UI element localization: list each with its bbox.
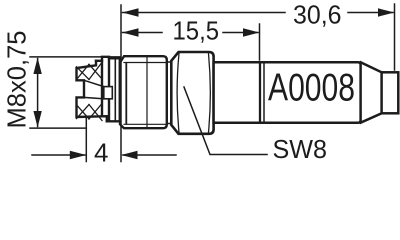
hex chamfer arc left xyxy=(177,54,179,133)
hex chamfer arc right xyxy=(209,54,211,133)
arrow M8 up xyxy=(33,58,41,74)
extension line x=86.3 for 4 xyxy=(85,119,87,162)
thread root lines xyxy=(124,62,166,64)
arrow M8 down xyxy=(33,111,41,127)
thread section M8 xyxy=(120,56,167,128)
extension line left vertical x=121 xyxy=(120,5,122,162)
dim line 30,6 xyxy=(123,12,394,14)
svg-text:A0008: A0008 xyxy=(268,67,355,110)
M8 bottom extension line xyxy=(30,127,86,129)
M8 dim vertical line xyxy=(37,59,39,127)
svg-text:4: 4 xyxy=(94,137,108,165)
body groove double line xyxy=(259,63,261,122)
crosshatch upper band xyxy=(77,62,103,79)
arrow 15,5 left xyxy=(122,28,139,36)
arrow 30,6 left xyxy=(122,8,139,16)
crosshatch lower band xyxy=(77,104,103,121)
knurled cone outline with entry notch xyxy=(77,61,107,122)
dim line 15,5 xyxy=(123,32,259,34)
M8 top extension line xyxy=(30,56,120,58)
arrow 4 left (pointing right) xyxy=(70,151,87,159)
body (A0008) xyxy=(214,62,361,122)
svg-text:SW8: SW8 xyxy=(273,134,328,164)
dim line 4 right part xyxy=(123,154,176,156)
arrow 4 right (pointing left) xyxy=(121,151,138,159)
svg-text:15,5: 15,5 xyxy=(173,16,220,46)
arrow 15,5 right xyxy=(243,28,260,36)
end cylinder tip xyxy=(382,72,399,113)
extension line x=394.5 for 30,6 xyxy=(394,4,396,70)
taper cone to tip xyxy=(361,62,382,122)
cavity pocket xyxy=(104,87,113,99)
svg-text:M8x0,75: M8x0,75 xyxy=(2,31,32,129)
hex nut SW8 xyxy=(171,52,213,134)
thread runout verticals xyxy=(125,64,127,124)
collar rings xyxy=(107,58,120,121)
dim line 4 left part xyxy=(32,154,85,156)
cavity funnel lines xyxy=(84,80,104,99)
leader line SW8 xyxy=(184,87,267,155)
arrowheads xyxy=(33,8,394,159)
svg-text:30,6: 30,6 xyxy=(293,0,342,29)
arrow 30,6 right xyxy=(378,8,395,16)
neck between thread and hex xyxy=(167,62,172,124)
flange washer xyxy=(102,57,109,122)
dimension lines group xyxy=(30,4,395,162)
extension line x=259.5 for 15,5 xyxy=(259,24,261,60)
